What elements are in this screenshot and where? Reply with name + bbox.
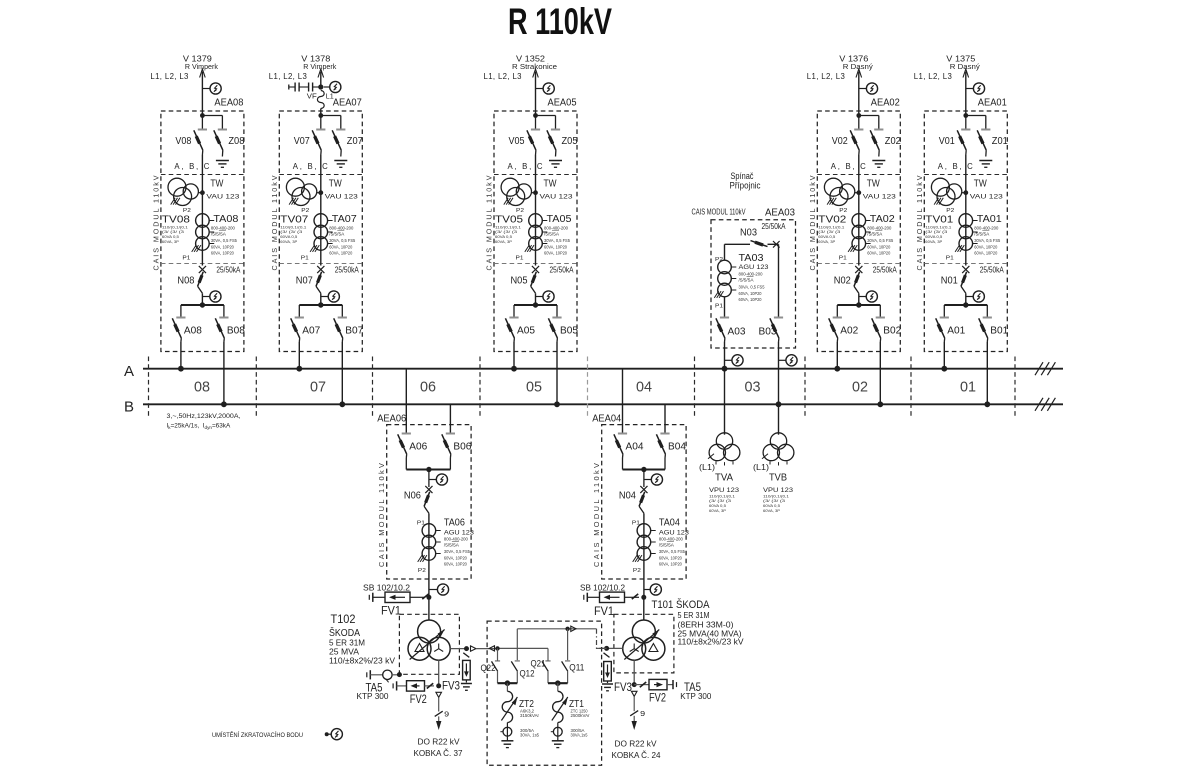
svg-text:FV2: FV2 [649,691,666,705]
svg-text:P2: P2 [633,568,641,574]
svg-text:/5/5/5A: /5/5/5A [544,231,559,236]
svg-text:B08: B08 [227,325,245,336]
svg-text:800-400-200: 800-400-200 [329,225,354,230]
svg-text:B02: B02 [883,325,901,336]
svg-text:800-400-200: 800-400-200 [211,225,236,230]
svg-text:TW: TW [329,178,342,190]
svg-text:B06: B06 [453,441,471,452]
svg-text:R 110kV: R 110kV [508,1,612,42]
svg-text:B03: B03 [759,326,777,337]
svg-text:30VA, 0,5 FS5: 30VA, 0,5 FS5 [659,549,686,554]
svg-text:800-400-200: 800-400-200 [544,225,569,230]
svg-text:30VA, 0,5 FS5: 30VA, 0,5 FS5 [867,238,894,243]
svg-text:AGU 123: AGU 123 [659,530,689,537]
svg-text:60VA, 10P20: 60VA, 10P20 [659,555,682,560]
svg-text:N03: N03 [740,227,757,238]
svg-text:3,~,50Hz,123kV,2000A,: 3,~,50Hz,123kV,2000A, [167,413,241,420]
svg-text:V 1352: V 1352 [516,55,546,64]
svg-text:03: 03 [745,379,761,396]
svg-text:60VA, 10P20: 60VA, 10P20 [444,555,467,560]
svg-text:60VA, 3P: 60VA, 3P [495,239,512,244]
svg-text:A06: A06 [409,441,427,452]
svg-text:N06: N06 [404,491,421,502]
svg-text:Q11: Q11 [569,663,584,674]
svg-text:P2: P2 [183,208,191,214]
svg-text:UMÍSTĚNÍ ZKRATOVACÍHO BODU: UMÍSTĚNÍ ZKRATOVACÍHO BODU [212,730,303,739]
svg-text:Z07: Z07 [347,136,363,147]
svg-text:04: 04 [636,379,652,396]
svg-text:TA02: TA02 [870,214,895,225]
svg-text:N08: N08 [177,276,194,287]
svg-text:AEA07: AEA07 [333,98,362,109]
svg-text:N02: N02 [834,276,851,287]
svg-text:P1: P1 [946,256,954,262]
svg-text:V 1379: V 1379 [183,55,213,64]
svg-text:TW: TW [544,178,557,190]
svg-text:AEA02: AEA02 [871,98,900,109]
svg-text:/5/5/5A: /5/5/5A [867,231,882,236]
svg-text:Přípojnic: Přípojnic [730,181,761,191]
svg-text:AGU 123: AGU 123 [444,530,474,537]
svg-text:60VA, 3P: 60VA, 3P [280,239,297,244]
svg-text:N01: N01 [941,276,958,287]
svg-text:60VA, 3P: 60VA, 3P [763,508,780,513]
svg-text:A07: A07 [302,325,320,336]
svg-text:V 1376: V 1376 [839,55,869,64]
svg-text:60VA, 10P20: 60VA, 10P20 [211,244,234,249]
svg-text:FV2: FV2 [410,692,427,706]
svg-text:60VA, 10P20: 60VA, 10P20 [739,291,762,296]
svg-text:2500kVAr: 2500kVAr [571,713,591,718]
svg-text:B04: B04 [668,441,686,452]
svg-text:AEA03: AEA03 [765,208,795,219]
svg-text:T102: T102 [331,612,356,626]
svg-text:V 1375: V 1375 [946,55,976,64]
svg-text:25/50kA: 25/50kA [216,265,241,274]
svg-text:60VA, 3P: 60VA, 3P [925,239,942,244]
svg-text:A03: A03 [728,326,746,337]
svg-text:V05: V05 [509,136,525,147]
svg-text:60VA, 10P20: 60VA, 10P20 [867,251,890,256]
svg-text:FV1: FV1 [381,603,401,617]
svg-text:CAIS MODUL 110kV: CAIS MODUL 110kV [592,463,601,567]
svg-text:60VA, 3P: 60VA, 3P [162,239,179,244]
svg-text:800-400-200: 800-400-200 [974,225,999,230]
svg-text:KOBKA Č. 37: KOBKA Č. 37 [414,748,463,758]
svg-text:CAIS MODUL 110kV: CAIS MODUL 110kV [915,175,924,270]
svg-text:KTP 300: KTP 300 [680,691,711,701]
svg-text:TW: TW [867,178,880,190]
svg-text:A05: A05 [517,325,535,336]
svg-text:60VA, 3P: 60VA, 3P [818,239,835,244]
svg-text:AEA08: AEA08 [214,98,243,109]
svg-text:TVA: TVA [715,472,733,484]
svg-text:VAU 123: VAU 123 [970,194,1003,201]
svg-text:P1: P1 [839,256,847,262]
svg-text:30VA, 0,5 FS5: 30VA, 0,5 FS5 [739,285,766,290]
svg-text:110/±8x2%/23 kV: 110/±8x2%/23 kV [329,656,395,666]
svg-text:N04: N04 [619,491,636,502]
svg-text:B: B [124,398,134,415]
svg-text:L1, L2, L3: L1, L2, L3 [484,72,522,81]
svg-text:AEA04: AEA04 [592,414,621,425]
svg-text:R Strakonice: R Strakonice [512,64,557,71]
svg-text:08: 08 [194,379,210,396]
svg-text:60VA, 10P20: 60VA, 10P20 [444,562,467,567]
svg-text:02: 02 [852,379,868,396]
svg-text:Q12: Q12 [520,669,535,680]
svg-text:25/50kA: 25/50kA [980,265,1005,274]
svg-text:CAIS MODUL 110kV: CAIS MODUL 110kV [808,175,817,270]
svg-text:9: 9 [444,710,449,719]
svg-text:FV1: FV1 [594,604,614,618]
svg-text:TVB: TVB [769,472,787,484]
svg-text:25/50kA: 25/50kA [762,222,787,231]
svg-text:VAU 123: VAU 123 [206,194,239,201]
svg-text:Z02: Z02 [885,136,901,147]
svg-text:A: A [124,363,134,380]
svg-text:P1: P1 [715,304,723,310]
svg-text:30VA, 0,5 FS5: 30VA, 0,5 FS5 [211,238,238,243]
svg-text:60VA, 10P20: 60VA, 10P20 [329,251,352,256]
svg-text:N05: N05 [511,276,528,287]
svg-text:Q22: Q22 [481,663,496,674]
svg-text:N07: N07 [296,276,313,287]
svg-text:P2: P2 [516,208,524,214]
svg-text:DO R22 kV: DO R22 kV [418,736,460,746]
svg-text:Spínač: Spínač [731,171,754,181]
svg-text:60VA, 10P20: 60VA, 10P20 [659,562,682,567]
svg-text:TA07: TA07 [332,214,357,225]
svg-text:60VA, 10P20: 60VA, 10P20 [211,251,234,256]
svg-text:V08: V08 [175,136,191,147]
svg-text:TW: TW [210,178,223,190]
svg-text:60VA, 10P20: 60VA, 10P20 [867,244,890,249]
svg-text:Z05: Z05 [562,136,578,147]
svg-text:VAU 123: VAU 123 [325,194,358,201]
svg-text:/5/5/5A: /5/5/5A [739,278,754,283]
svg-text:P1: P1 [301,256,309,262]
svg-text:P2: P2 [839,208,847,214]
svg-text:30VA, 0,5 FS5: 30VA, 0,5 FS5 [974,238,1001,243]
svg-text:25/50kA: 25/50kA [550,265,575,274]
svg-text:V02: V02 [832,136,848,147]
svg-text:800-400-200: 800-400-200 [867,225,892,230]
svg-text:P2: P2 [301,208,309,214]
svg-text:30VA, 1s5: 30VA, 1s5 [520,733,540,738]
svg-text:DO R22 kV: DO R22 kV [615,738,657,748]
svg-text:CAIS MODUL 110kV: CAIS MODUL 110kV [692,208,746,217]
svg-text:B01: B01 [990,325,1008,336]
svg-text:/5/5/5A: /5/5/5A [211,231,226,236]
svg-text:TA04: TA04 [659,518,680,529]
svg-text:L1, L2, L3: L1, L2, L3 [914,72,952,81]
svg-text:L1, L2, L3: L1, L2, L3 [150,72,188,81]
svg-text:P1: P1 [516,256,524,262]
svg-text:60VA, 10P20: 60VA, 10P20 [544,244,567,249]
svg-text:KOBKA Č. 24: KOBKA Č. 24 [612,750,661,760]
svg-text:A04: A04 [626,441,644,452]
svg-text:B05: B05 [560,325,578,336]
svg-text:01: 01 [960,379,976,396]
svg-text:800-400-200: 800-400-200 [739,272,764,277]
svg-text:Z08: Z08 [228,136,244,147]
svg-text:/5/5/5A: /5/5/5A [444,543,459,548]
svg-text:A02: A02 [840,325,858,336]
svg-text:AEA01: AEA01 [978,98,1007,109]
svg-text:P2: P2 [946,208,954,214]
svg-text:KTP 300: KTP 300 [357,691,389,701]
svg-text:Z01: Z01 [992,136,1008,147]
svg-text:30VA,1s5: 30VA,1s5 [571,733,589,738]
svg-text:TA05: TA05 [547,214,572,225]
svg-text:800-400-200: 800-400-200 [659,537,684,542]
svg-text:60VA, 10P20: 60VA, 10P20 [329,244,352,249]
svg-text:06: 06 [420,379,436,396]
svg-text:TA01: TA01 [977,214,1002,225]
svg-text:60VA, 10P20: 60VA, 10P20 [974,244,997,249]
svg-text:/5/5/5A: /5/5/5A [974,231,989,236]
svg-text:60VA, 3P: 60VA, 3P [709,508,726,513]
svg-text:SB 102/10.2: SB 102/10.2 [580,583,625,593]
svg-text:V 1378: V 1378 [301,55,331,64]
svg-text:V07: V07 [294,136,310,147]
svg-text:TA08: TA08 [213,214,238,225]
svg-text:A08: A08 [184,325,202,336]
svg-text:B07: B07 [345,325,363,336]
svg-text:800-400-200: 800-400-200 [444,537,469,542]
svg-text:CAIS MODUL 110kV: CAIS MODUL 110kV [485,175,494,270]
svg-text:60VA, 10P20: 60VA, 10P20 [974,251,997,256]
svg-text:25/50kA: 25/50kA [335,265,360,274]
svg-text:VAU 123: VAU 123 [540,194,573,201]
svg-text:/5/5/5A: /5/5/5A [329,231,344,236]
svg-text:Ik=25kA/1s, Idyn=63kA: Ik=25kA/1s, Idyn=63kA [167,423,231,431]
svg-text:9: 9 [640,709,645,718]
svg-text:P2: P2 [418,568,426,574]
svg-text:AEA06: AEA06 [377,414,406,425]
svg-text:SB 102/10.2: SB 102/10.2 [363,583,410,593]
svg-text:25/50kA: 25/50kA [873,265,898,274]
svg-text:VF: VF [307,92,317,101]
svg-text:TA06: TA06 [444,518,465,529]
svg-text:07: 07 [310,379,326,396]
svg-text:Q21: Q21 [531,659,546,670]
svg-text:P2: P2 [715,257,723,263]
svg-text:TW: TW [974,178,987,190]
svg-text:60VA, 10P20: 60VA, 10P20 [739,297,762,302]
svg-text:110/±8x2%/23 kV: 110/±8x2%/23 kV [678,637,744,647]
svg-text:(L1): (L1) [699,463,715,472]
svg-text:V01: V01 [939,136,955,147]
svg-text:L1, L2, L3: L1, L2, L3 [269,72,307,81]
svg-text:30VA, 0,5 FS5: 30VA, 0,5 FS5 [329,238,356,243]
svg-text:P1: P1 [182,256,190,262]
svg-text:30VA, 0,5 FS5: 30VA, 0,5 FS5 [444,549,471,554]
svg-text:CAIS MODUL 110kV: CAIS MODUL 110kV [151,175,160,270]
svg-text:(L1): (L1) [753,463,769,472]
svg-text:CAIS MODUL 110kV: CAIS MODUL 110kV [377,463,386,567]
svg-text:VAU 123: VAU 123 [863,194,896,201]
svg-text:FV3: FV3 [442,678,460,692]
svg-text:AGU 123: AGU 123 [739,264,769,271]
svg-text:T101 ŠKODA: T101 ŠKODA [652,598,711,611]
svg-text:TA03: TA03 [739,253,764,264]
svg-text:A01: A01 [947,325,965,336]
svg-text:/5/5/5A: /5/5/5A [659,543,674,548]
svg-text:05: 05 [526,379,542,396]
svg-text:FV3: FV3 [614,680,632,694]
svg-text:60VA, 10P20: 60VA, 10P20 [544,251,567,256]
svg-text:30VA, 0,5 FS5: 30VA, 0,5 FS5 [544,238,571,243]
svg-text:CAIS MODUL 110kV: CAIS MODUL 110kV [270,175,279,270]
svg-text:3150kVAr: 3150kVAr [520,713,540,718]
svg-text:AEA05: AEA05 [548,98,577,109]
svg-text:L1, L2, L3: L1, L2, L3 [807,72,845,81]
